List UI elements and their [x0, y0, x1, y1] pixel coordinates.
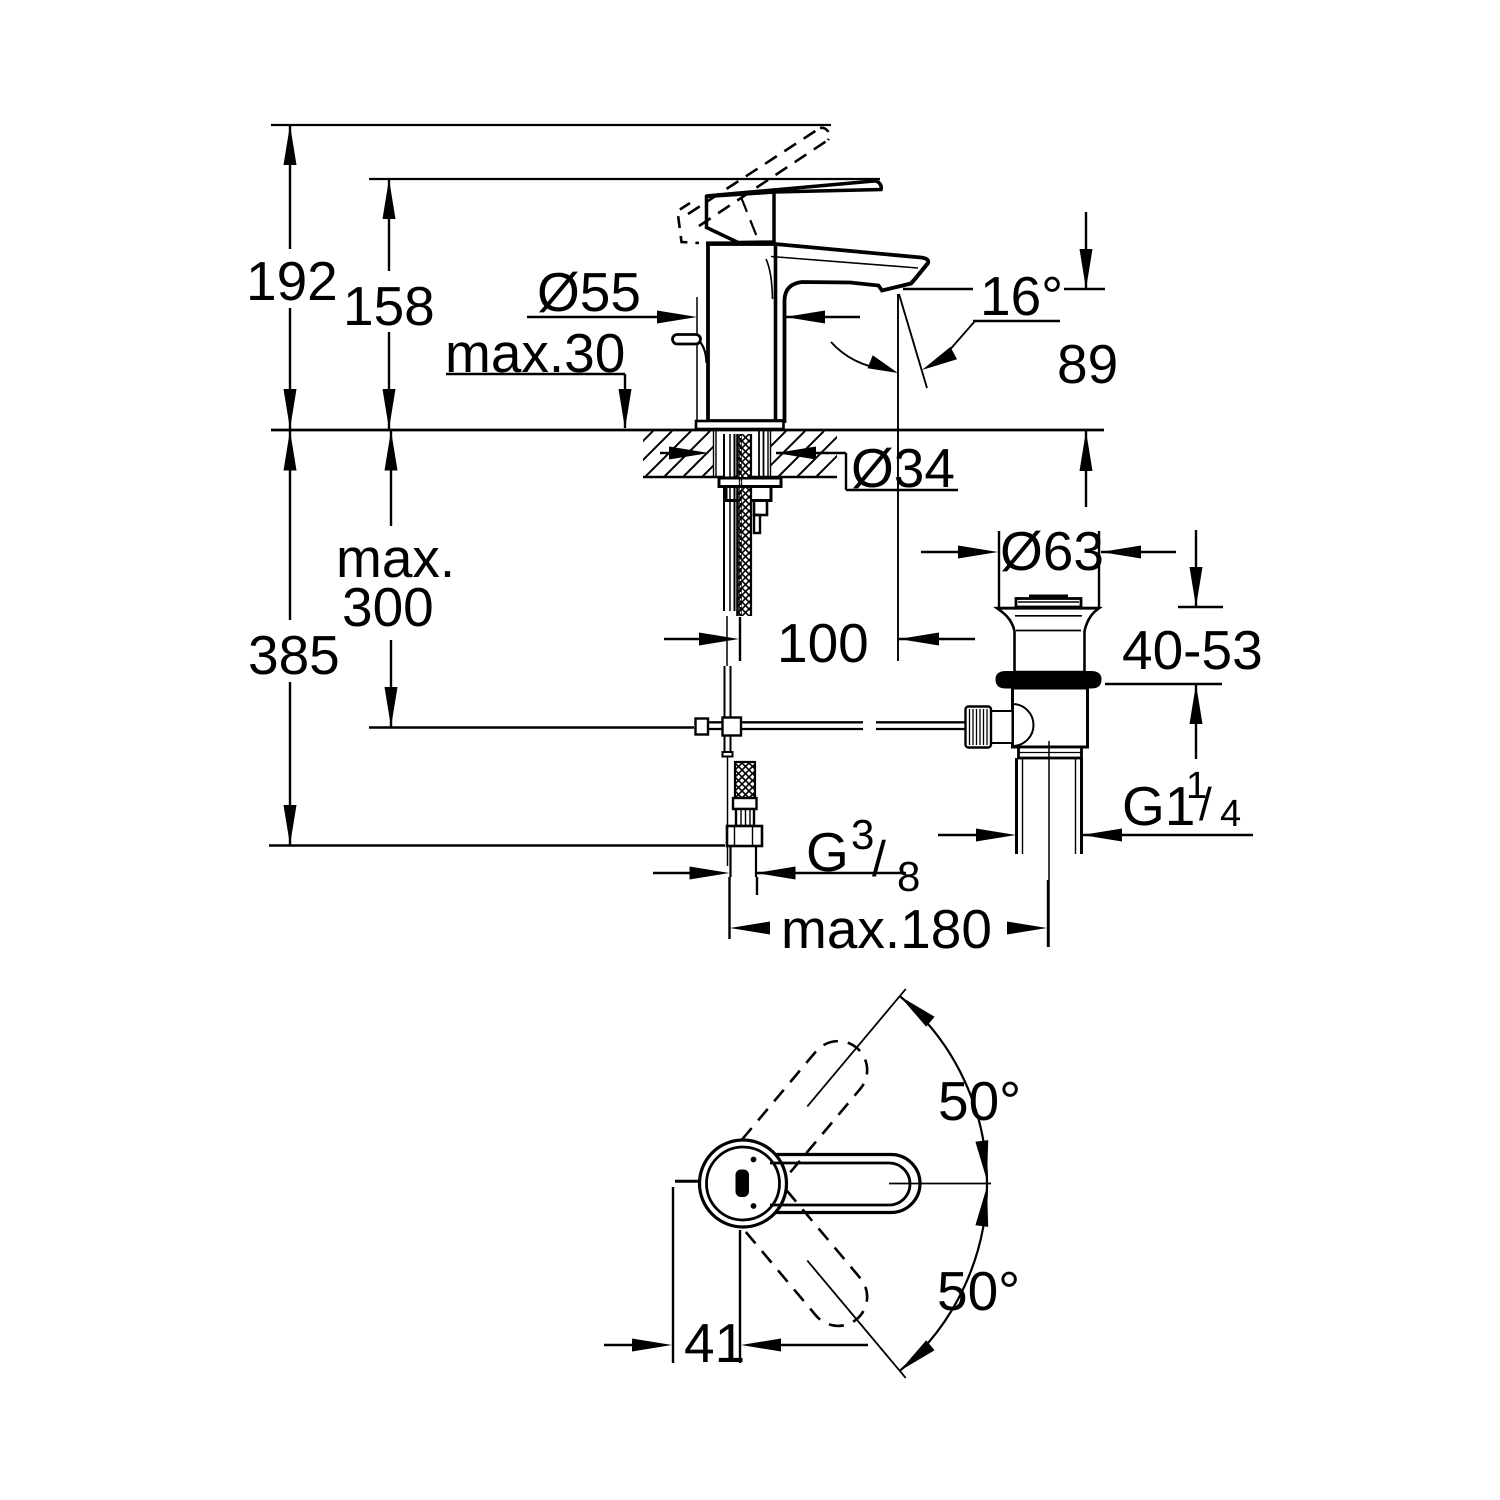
- svg-text:100: 100: [777, 612, 869, 674]
- svg-text:16°: 16°: [980, 265, 1063, 327]
- svg-text:Ø34: Ø34: [851, 437, 955, 499]
- svg-text:41: 41: [684, 1312, 745, 1374]
- svg-text:max.180: max.180: [781, 898, 992, 960]
- svg-text:300: 300: [342, 576, 434, 638]
- svg-text:Ø63: Ø63: [1000, 520, 1104, 582]
- svg-text:89: 89: [1057, 333, 1118, 395]
- svg-text:Ø55: Ø55: [537, 261, 641, 323]
- svg-text:158: 158: [343, 275, 435, 337]
- svg-text:50°: 50°: [938, 1070, 1021, 1132]
- svg-text:192: 192: [246, 250, 338, 312]
- svg-text:max.30: max.30: [445, 322, 625, 384]
- svg-text:50°: 50°: [937, 1260, 1020, 1322]
- svg-text:385: 385: [248, 624, 340, 686]
- svg-text:40-53: 40-53: [1122, 619, 1263, 681]
